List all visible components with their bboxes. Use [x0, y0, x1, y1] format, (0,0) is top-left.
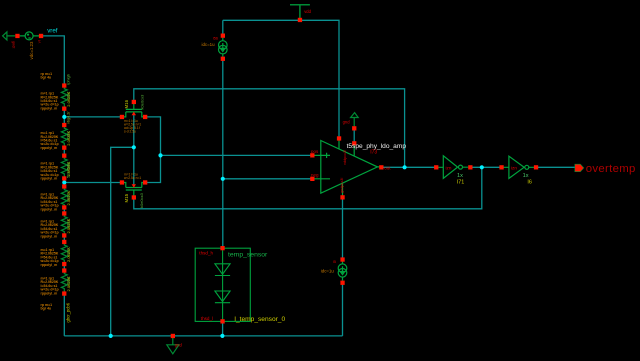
- inverter I71 1x: [438, 156, 468, 179]
- svg-text:b8r2: b8r2: [66, 248, 70, 256]
- svg-text:k0e0cx3: k0e0cx3: [140, 94, 145, 110]
- inverter I6 1x: [504, 156, 535, 178]
- svg-text:rppolyl_m: rppolyl_m: [41, 263, 58, 267]
- wire vdd arrow to op-amp vdd pin: [353, 128, 355, 143]
- svg-text:overtemp: overtemp: [586, 163, 636, 175]
- pin op-amp vdd: [352, 141, 356, 145]
- pin R2 bottom: [62, 146, 66, 150]
- property text R1: [40, 92, 59, 111]
- svg-text:1x: 1x: [523, 173, 529, 179]
- property text M15: [124, 172, 141, 179]
- resistor R3 of vref divider chain: [61, 156, 67, 179]
- node tap2 junction: [62, 180, 66, 184]
- wire M15 gate feedback from inverter I71 output node: [134, 167, 482, 209]
- pin I5 top: [340, 257, 344, 261]
- svg-text:izn: izn: [446, 165, 452, 170]
- wire resistor chain inter-segment: [63, 109, 65, 336]
- svg-text:1x: 1x: [457, 173, 463, 179]
- wire idc I5 to ground rail: [342, 283, 344, 336]
- pin temp_sensor thsd_l: [220, 319, 224, 323]
- bulk arrow M15: [132, 184, 136, 188]
- svg-text:idc=1u: idc=1u: [321, 268, 335, 273]
- pin M15 gate: [132, 195, 136, 199]
- wire op-amp out to inverter I71 input: [381, 166, 436, 168]
- svg-text:temp_sensor: temp_sensor: [228, 252, 268, 259]
- wire neg tap to op-amp neg input: [223, 178, 312, 180]
- wire idc I56 output down to temp_sensor: [222, 59, 224, 248]
- pin R7 top: [62, 268, 66, 272]
- pin vdc right: [39, 34, 43, 38]
- node inverter I71 output junction: [480, 165, 484, 169]
- wire M16 right S/D to pos node: [145, 117, 160, 155]
- node neg junction: [221, 177, 225, 181]
- ground symbol (rotated) at vdc source: [3, 32, 16, 40]
- wire inverter I71 output to inverter I6 input: [470, 166, 501, 168]
- svg-text:neg: neg: [311, 173, 319, 178]
- svg-text:I_temp_sensor_0: I_temp_sensor_0: [234, 316, 285, 323]
- wire M16 gate feedback from out node: [134, 89, 405, 168]
- svg-text:bgr 4u: bgr 4u: [41, 307, 52, 311]
- bulk arrow M16: [132, 112, 136, 116]
- svg-text:thsd_h: thsd_h: [199, 251, 213, 256]
- diode D1 in temp_sensor: [215, 264, 230, 276]
- pin op-amp out: [379, 165, 383, 169]
- svg-text:vbg4.2r: vbg4.2r: [66, 111, 70, 124]
- svg-text:idc=1u: idc=1u: [202, 42, 216, 47]
- svg-text:M15: M15: [124, 193, 129, 202]
- svg-text:I5: I5: [333, 260, 336, 264]
- property text R5: [40, 220, 59, 239]
- svg-text:rppolyl_m: rppolyl_m: [41, 177, 58, 181]
- wire tap2 chain to M15 left S/D: [64, 182, 122, 184]
- supply arrow symbol at op-amp vdd pin: [351, 113, 359, 127]
- current source I56 idc=1u: [219, 38, 228, 57]
- svg-text:rppolyl_m: rppolyl_m: [41, 234, 58, 238]
- svg-text:thsd_l: thsd_l: [201, 316, 213, 321]
- svg-text:vddpcx3!: vddpcx3!: [343, 150, 347, 165]
- pin op-amp neg: [310, 177, 314, 181]
- pin I6 output: [534, 165, 538, 169]
- svg-text:M16: M16: [124, 99, 129, 108]
- vdc source V0 vref 1.23V: [20, 32, 39, 40]
- pin vdc left: [15, 34, 19, 38]
- svg-text:bgr 4u: bgr 4u: [41, 76, 52, 80]
- pin vdd: [298, 18, 302, 22]
- svg-text:gnd: gnd: [175, 342, 183, 347]
- property text R3: [40, 162, 59, 181]
- pin temp_sensor thsd_h: [220, 246, 224, 250]
- pin ground rail: [171, 334, 175, 338]
- wire bulk line M16-M15: [133, 113, 135, 186]
- svg-text:gndpcx3!: gndpcx3!: [340, 178, 344, 193]
- pin M15 source: [120, 180, 124, 184]
- wire bottom ground rail: [64, 335, 342, 337]
- resistor R6 of vref divider chain: [61, 242, 67, 264]
- wire bulk tap to ground rail: [111, 147, 134, 336]
- pin R5 bottom: [62, 233, 66, 237]
- pin R4 bottom: [62, 205, 66, 209]
- property text R4: [40, 193, 59, 212]
- resistor R1 of vref divider chain: [61, 86, 67, 109]
- svg-text:rppolyl_m: rppolyl_m: [41, 146, 58, 150]
- svg-text:k0e0cx3: k0e0cx3: [139, 192, 144, 208]
- svg-text:s-d 2.5u: s-d 2.5u: [124, 129, 136, 133]
- property text R2: [40, 131, 59, 150]
- wire pos node to op-amp pos input: [161, 154, 313, 156]
- pin R3 top: [62, 154, 66, 158]
- pin I5 bottom: [340, 281, 344, 285]
- svg-text:gnd!: gnd!: [12, 41, 16, 48]
- svg-text:vref: vref: [47, 28, 58, 35]
- svg-text:pos: pos: [311, 149, 319, 154]
- wire inverter I6 output to overtemp pin: [536, 166, 575, 168]
- svg-text:rphigh: rphigh: [65, 74, 70, 85]
- pin M16 source: [120, 115, 124, 119]
- svg-text:I71: I71: [457, 179, 465, 185]
- property text R6: [40, 248, 59, 267]
- ground symbol on bottom rail: [167, 338, 179, 354]
- svg-text:gnd: gnd: [343, 119, 351, 124]
- svg-text:b8r2: b8r2: [66, 131, 70, 139]
- pin R5 top: [62, 211, 66, 215]
- svg-text:5c0+5.4r: 5c0+5.4r: [66, 162, 70, 178]
- pin op-amp bottom: [340, 195, 344, 199]
- svg-text:b8r2: b8r2: [66, 192, 70, 200]
- svg-text:b8r2: b8r2: [66, 219, 70, 227]
- pin R1 top: [62, 83, 66, 87]
- svg-text:izn: izn: [511, 165, 517, 170]
- pin arrow bottom: [352, 126, 356, 130]
- property text chain top: [41, 72, 53, 80]
- svg-text:rppolyl_m: rppolyl_m: [41, 291, 58, 295]
- wire idc I56 top stub: [222, 20, 224, 35]
- node rail junction left: [109, 334, 113, 338]
- svg-text:out: out: [384, 166, 391, 171]
- pin R4 top: [62, 184, 66, 188]
- wire tap1 chain to M16 left S/D: [64, 116, 122, 118]
- property text R7: [40, 277, 59, 296]
- pin M15 drain: [143, 180, 147, 184]
- transistor M16 nmos (gate up): [122, 104, 145, 117]
- pin R3 bottom: [62, 176, 66, 180]
- pin R2 top: [62, 123, 66, 127]
- pin M16 gate: [132, 100, 136, 104]
- svg-text:b8r2: b8r2: [66, 276, 70, 284]
- wire top rail vdd (idc I56 to op-amp top): [223, 20, 339, 138]
- svg-text:w=2.5u n=1: w=2.5u n=1: [124, 176, 141, 180]
- block I_temp_sensor_0 temp_sensor: [195, 248, 250, 321]
- svg-text:I6: I6: [527, 179, 532, 185]
- transistor M15 nmos (gate down): [122, 183, 145, 196]
- wire pos node down to M15 right S/D: [145, 155, 160, 182]
- wire vref net (vdc to resistor chain top): [43, 36, 65, 86]
- pin R7 bottom: [62, 291, 66, 295]
- wire op-amp bottom to idc I5: [342, 197, 344, 259]
- svg-text:I56: I56: [213, 37, 218, 41]
- node bulk junction: [132, 145, 136, 149]
- resistor R5 of vref divider chain: [61, 214, 67, 236]
- wire temp_sensor bottom to ground rail: [222, 321, 224, 336]
- vdd supply symbol: [290, 5, 310, 18]
- pin I6 input: [499, 165, 503, 169]
- pin op-amp top: [337, 136, 341, 140]
- svg-text:I73: I73: [370, 149, 377, 155]
- pin op-amp pos: [310, 153, 314, 157]
- pin I56 bottom: [221, 57, 225, 61]
- node rail junction temp_sensor: [220, 334, 224, 338]
- output pin overtemp: [575, 164, 584, 172]
- pin I71 output: [468, 165, 472, 169]
- pin R6 top: [62, 240, 66, 244]
- pin M16 drain: [143, 115, 147, 119]
- resistor R4 of vref divider chain: [61, 187, 67, 208]
- diode D2 in temp_sensor: [215, 291, 230, 303]
- op-amp I73 tspe_phy_ldo_amp: [314, 141, 379, 198]
- svg-text:rppolyl_m: rppolyl_m: [41, 207, 58, 211]
- property text chain bottom: [41, 303, 53, 311]
- svg-text:gbcr_pcb6: gbcr_pcb6: [66, 302, 71, 322]
- resistor R7 of vref divider chain: [61, 271, 67, 294]
- resistor R2 of vref divider chain: [61, 125, 67, 148]
- svg-text:vdd: vdd: [304, 9, 311, 14]
- pin I71 input: [434, 165, 438, 169]
- node tap1 junction: [62, 115, 66, 119]
- node out junction: [403, 165, 407, 169]
- svg-text:vdc=1.23: vdc=1.23: [29, 41, 34, 60]
- svg-text:b8r2: b8r2: [66, 91, 70, 99]
- pin I56 top: [221, 34, 225, 38]
- property text M16: [124, 119, 141, 133]
- svg-text:rppolyl_m: rppolyl_m: [41, 106, 58, 110]
- pin R6 bottom: [62, 262, 66, 266]
- node pos junction: [158, 153, 162, 157]
- current source I5 idc=1u: [338, 261, 347, 281]
- pin R1 bottom: [62, 107, 66, 111]
